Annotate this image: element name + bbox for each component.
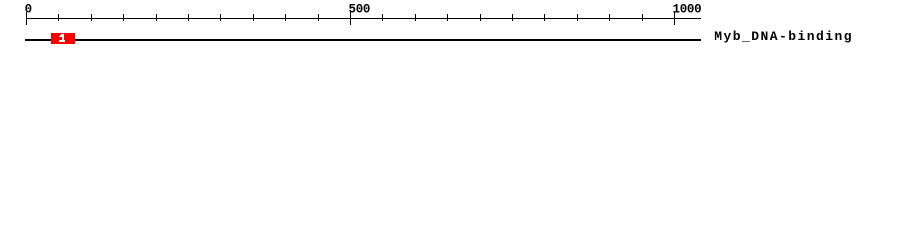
- svg-text:500: 500: [349, 3, 371, 17]
- domain box (red): [51, 33, 75, 44]
- ruler axis line: [26, 18, 701, 19]
- ruler major tick 500: [350, 12, 351, 25]
- svg-text:Myb_DNA-binding: Myb_DNA-binding: [714, 29, 853, 44]
- domain start position label 1 (bitmap-style glyph): [59, 34, 65, 42]
- ruler minor ticks: [58, 14, 643, 21]
- ruler major tick 0: [26, 12, 27, 25]
- ruler major tick 1000: [674, 12, 675, 25]
- svg-text:0: 0: [25, 3, 32, 17]
- protein backbone line: [25, 39, 701, 41]
- svg-text:1000: 1000: [673, 3, 702, 17]
